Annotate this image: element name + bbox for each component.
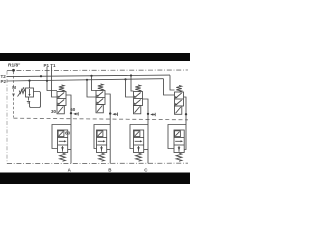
st3 feed wire from T2 [131, 76, 134, 92]
U4 right link wire [184, 97, 187, 114]
PRV internal flow arrow [29, 89, 31, 95]
PRV body [26, 88, 34, 97]
gauge mark M [12, 85, 16, 90]
enclosure border bottom (dash-dot) [7, 162, 188, 164]
station 3 riser wire [147, 114, 149, 163]
U1 right link wire [66, 95, 71, 113]
node dot on T2 (st1) [40, 75, 42, 77]
node dot on T2 (st2) [90, 75, 92, 77]
L1 spring [60, 153, 66, 161]
L2 flow arrow [98, 140, 104, 142]
L2 spring [99, 153, 105, 161]
station 3 divider node [147, 113, 149, 115]
node dot on P2 (st2) [86, 79, 88, 81]
station 3 body outlet wire [144, 149, 148, 151]
L1 flow arrow [59, 140, 65, 142]
node dot on P2 (st3) [124, 78, 126, 80]
U4 cell flow arrows [176, 93, 182, 98]
U1 cell flow arrows [58, 93, 64, 98]
enclosure border left (dash-dot) [6, 71, 8, 164]
upper valve U3 body [134, 92, 143, 106]
svg-text:B: B [108, 168, 112, 173]
upper valve U1 spring [59, 85, 64, 92]
station 3 bleed arrow on divider [150, 113, 153, 116]
U3 right link wire [143, 99, 149, 114]
U2 cell flow arrows [97, 92, 103, 97]
upper valve U2 body [96, 91, 105, 105]
value label 30 (U1 orifice) [51, 109, 57, 114]
station 1 bleed arrow on divider [73, 113, 76, 116]
svg-text:C: C [144, 168, 148, 173]
label T2 [1, 74, 7, 79]
drain line arrowhead [12, 94, 15, 98]
upper valve U4 body [175, 92, 184, 106]
PRV spring [19, 90, 25, 94]
upper valve U3 spring [135, 85, 140, 92]
U2 orifice box [96, 105, 103, 113]
relief valve PRV tap node on P2 [28, 80, 30, 82]
L4 flow arrow [175, 140, 181, 142]
PRV pilot loop [30, 92, 41, 108]
svg-text:60: 60 [70, 107, 76, 112]
st2 feed wire from T2 [92, 76, 97, 91]
U4 orifice box [175, 106, 182, 114]
port stub T1 + st1 feed wire T [52, 67, 58, 97]
svg-text:R1/8": R1/8" [8, 63, 20, 69]
station 4 bypass loop wire [168, 125, 186, 149]
station 2 body outlet wire [107, 149, 111, 151]
L2 seat arrow [101, 146, 103, 152]
st2 feed wire from P2 [87, 80, 96, 97]
L4 orifice box [175, 131, 181, 137]
U2 right link wire [105, 94, 110, 114]
station 3 bypass loop wire [130, 125, 148, 149]
station 2 riser wire [109, 114, 111, 164]
top separator bar [0, 53, 190, 61]
svg-text:30: 30 [51, 109, 57, 114]
st4 feed wire from T2 (bus end) [170, 75, 175, 90]
L4 spring [176, 153, 182, 161]
station 1 bypass loop wire [52, 125, 71, 149]
svg-text:P2: P2 [1, 79, 7, 84]
L3 seat arrow [138, 146, 140, 152]
lower valve L3 body [134, 130, 144, 153]
node dot on T2 (st3) [130, 74, 132, 76]
value label 60 (L1 orifice) [65, 130, 71, 135]
station 4 divider node [185, 113, 187, 115]
svg-text:P1 T1: P1 T1 [44, 63, 57, 68]
label P2 [1, 79, 7, 84]
drain pilot line (dashed) [13, 72, 15, 118]
st4 feed wire from P2 (bus end) [164, 79, 175, 95]
U3 cell flow arrows [135, 93, 141, 98]
lower valve L1 body [58, 130, 68, 153]
station 1 body outlet wire [68, 149, 71, 151]
bottom separator bar [0, 173, 190, 185]
station 2 divider node [109, 112, 111, 114]
lower valve L2 body [97, 130, 107, 153]
upper valve U2 spring [98, 84, 103, 91]
station 4 riser wire [184, 114, 186, 149]
PRV adjustment arrow [18, 88, 24, 97]
U3 orifice box [134, 106, 141, 114]
L1 orifice box [58, 131, 64, 137]
port label C [144, 168, 148, 173]
port label R1/8" [8, 63, 20, 69]
upper valve U4 spring [176, 85, 181, 92]
U1 orifice box [57, 106, 64, 114]
port R1/8 node dot [12, 69, 15, 72]
value label 60 (st1 divider) [70, 107, 76, 112]
L4 seat arrow [178, 146, 180, 152]
ports label P1 T1 [44, 63, 57, 68]
station 1 riser wire [70, 113, 72, 163]
upper valve U1 body [57, 92, 66, 106]
bus line T2 [7, 75, 171, 77]
L3 orifice box [134, 131, 140, 137]
node dot P1-P2 junction [46, 80, 48, 82]
L3 spring [136, 153, 142, 161]
port label B [108, 168, 112, 173]
svg-text:A: A [68, 168, 72, 173]
lower valve L4 body [174, 130, 184, 153]
svg-text:M: M [12, 85, 16, 90]
svg-text:60: 60 [65, 130, 71, 135]
st1 feed wire P [47, 81, 57, 91]
enclosure border top (dash-dot) [7, 69, 188, 72]
bus line P2 [7, 79, 164, 81]
port label A [68, 168, 72, 173]
PRV drain to tank [28, 97, 30, 101]
st3 feed wire from P2 [126, 79, 134, 97]
L1 seat arrow [62, 146, 64, 152]
L3 flow arrow [135, 140, 141, 142]
drain dashed rail along divider [14, 118, 189, 120]
L2 orifice box [97, 131, 103, 137]
port stub P1 [46, 67, 48, 81]
PRV supply wire [29, 81, 31, 88]
station 2 bypass loop wire [94, 125, 110, 149]
station 2 bleed arrow on divider [112, 113, 115, 116]
station 1 divider node [70, 112, 72, 114]
